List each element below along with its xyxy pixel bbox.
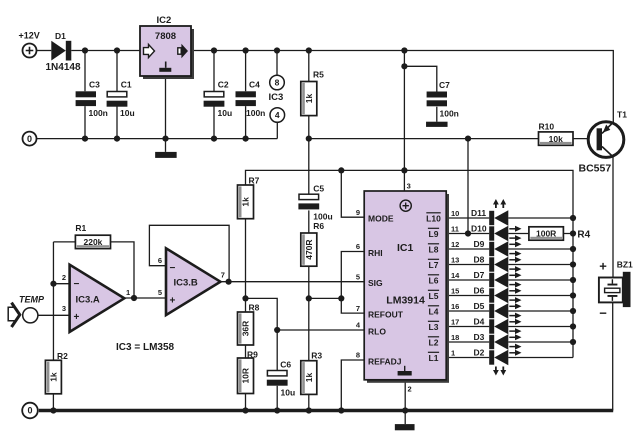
- wire base line R5/R10: [309, 138, 597, 140]
- junction dots 0V mid rail: [82, 136, 88, 142]
- junction RLO node: [274, 327, 280, 333]
- svg-text:L10: L10: [426, 213, 441, 223]
- LED side emission arrows: [509, 228, 515, 230]
- wire pin2 stub: [53, 283, 69, 285]
- svg-text:C3: C3: [89, 80, 100, 90]
- wire +8V rail from IC2 output to T1 emitter: [191, 51, 613, 124]
- wire C2 column: [213, 51, 215, 139]
- junctions LED anode bus: [570, 215, 576, 221]
- wire LED row pin to D8: [446, 264, 489, 266]
- svg-text:+: +: [74, 312, 80, 323]
- wire C4 column: [245, 51, 247, 139]
- op-amp IC3.A: [70, 265, 125, 332]
- wire C7 branch: [404, 66, 436, 121]
- svg-text:D2: D2: [474, 348, 485, 358]
- svg-text:100n: 100n: [246, 108, 265, 118]
- wire R5 top stem: [308, 51, 310, 82]
- svg-text:BC557: BC557: [579, 163, 612, 175]
- svg-text:15: 15: [451, 287, 459, 296]
- svg-text:100R: 100R: [536, 229, 556, 239]
- wire +12V to D1: [37, 50, 52, 52]
- svg-text:IC1: IC1: [397, 242, 414, 254]
- wire V+ line and LED anode bus: [246, 170, 574, 357]
- svg-text:REFADJ: REFADJ: [368, 356, 402, 366]
- svg-text:D5: D5: [474, 301, 485, 311]
- svg-text:+: +: [599, 258, 607, 273]
- svg-text:5: 5: [158, 288, 162, 297]
- svg-text:100n: 100n: [440, 108, 459, 118]
- ground below C7: [426, 122, 448, 127]
- svg-text:D7: D7: [474, 270, 485, 280]
- wire RLO node to C6: [276, 330, 278, 411]
- svg-text:8: 8: [275, 78, 280, 88]
- svg-text:1k: 1k: [49, 372, 59, 382]
- junction L9 row: [465, 230, 471, 236]
- wire REFOUT node to RLO pin 4: [246, 298, 365, 330]
- svg-text:1: 1: [451, 349, 455, 358]
- svg-text:C7: C7: [439, 80, 450, 90]
- wire LED row pin to D9: [446, 248, 489, 250]
- wire pin3 column: [403, 51, 405, 193]
- svg-text:T1: T1: [617, 110, 627, 120]
- svg-text:1N4148: 1N4148: [46, 62, 81, 73]
- svg-text:TEMP: TEMP: [19, 294, 45, 304]
- svg-text:D1: D1: [55, 31, 66, 41]
- svg-text:14: 14: [451, 271, 460, 280]
- junctions reference nodes: [242, 295, 248, 301]
- svg-text:L1: L1: [429, 353, 439, 363]
- svg-text:R2: R2: [57, 351, 68, 361]
- svg-text:D6: D6: [474, 286, 485, 296]
- svg-text:10u: 10u: [120, 108, 135, 118]
- svg-text:−: −: [170, 263, 176, 274]
- junctions V+ line: [338, 167, 344, 173]
- svg-text:10R: 10R: [241, 368, 251, 384]
- regulator IC2 7808: [143, 29, 194, 79]
- wire C5 to R6: [308, 210, 310, 233]
- svg-text:L7: L7: [429, 260, 439, 270]
- wire buzzer to 0V: [612, 302, 614, 410]
- svg-text:220k: 220k: [83, 237, 102, 247]
- svg-text:D9: D9: [474, 239, 485, 249]
- svg-text:13: 13: [451, 256, 459, 265]
- svg-text:0: 0: [27, 134, 32, 144]
- svg-text:L3: L3: [429, 322, 439, 332]
- svg-text:L8: L8: [429, 244, 439, 254]
- svg-text:R3: R3: [311, 350, 322, 360]
- svg-text:1k: 1k: [241, 197, 251, 207]
- svg-text:9: 9: [356, 208, 360, 217]
- svg-text:L2: L2: [429, 337, 439, 347]
- wire LED row pin to D11: [446, 217, 489, 219]
- wire IC3.B feedback loop: [149, 225, 229, 281]
- svg-text:L5: L5: [429, 291, 439, 301]
- svg-text:+: +: [170, 295, 176, 306]
- svg-text:R6: R6: [313, 221, 324, 231]
- svg-text:R1: R1: [75, 223, 86, 233]
- wire R1 right lead: [111, 242, 135, 298]
- wire LED row pin to D7: [446, 279, 489, 281]
- wire REFADJ pin8 elbow to 0V: [341, 360, 364, 411]
- svg-text:6: 6: [356, 242, 360, 251]
- capacitor C4 100n: [236, 91, 256, 97]
- LED top emission arrows: [495, 204, 497, 209]
- capacitor C1 10u: [107, 92, 127, 97]
- svg-text:C6: C6: [280, 359, 291, 369]
- wire IC3.A output to IC3.B pin5: [124, 297, 166, 299]
- svg-text:D11: D11: [471, 208, 486, 218]
- wire R3 bottom stem: [308, 394, 310, 410]
- wire RHI pin6 to REFOUT pin7 elbow: [341, 252, 364, 314]
- svg-text:IC3 = LM358: IC3 = LM358: [116, 342, 175, 353]
- wire R7 to R8: [245, 219, 247, 312]
- svg-text:5: 5: [356, 272, 360, 281]
- ground below IC1 pin 2: [395, 424, 415, 430]
- svg-text:L6: L6: [429, 275, 439, 285]
- svg-text:16: 16: [451, 302, 459, 311]
- svg-text:2: 2: [408, 385, 412, 394]
- wire R9 bottom stem: [245, 394, 247, 411]
- wire IC3 pin4 stem: [276, 122, 278, 138]
- svg-text:10: 10: [451, 209, 459, 218]
- svg-text:1k: 1k: [304, 373, 314, 383]
- svg-text:10k: 10k: [549, 134, 563, 144]
- wire R6 to R3: [308, 266, 310, 361]
- svg-text:L9: L9: [429, 229, 439, 239]
- IC1 LM3914: [367, 194, 449, 383]
- svg-text:R8: R8: [249, 303, 260, 313]
- svg-text:470R: 470R: [304, 239, 314, 259]
- wire TEMP to pin3: [38, 314, 70, 316]
- svg-text:R4: R4: [577, 230, 590, 241]
- junction IC3.A output: [131, 295, 137, 301]
- terminal 0V bottom: [22, 403, 38, 419]
- svg-text:C5: C5: [313, 184, 324, 194]
- svg-text:IC3.B: IC3.B: [174, 278, 198, 289]
- svg-text:RLO: RLO: [368, 326, 386, 336]
- svg-text:RHI: RHI: [368, 248, 383, 258]
- diode D1 1N4148: [51, 41, 66, 61]
- wire LED row pin to D5: [446, 310, 489, 312]
- svg-text:D10: D10: [471, 224, 487, 234]
- svg-text:7808: 7808: [155, 31, 176, 42]
- wire R1 feedback column: [52, 242, 54, 360]
- wire LED row pin to D4: [446, 326, 489, 328]
- wire MODE pin9 elbow to V+: [341, 170, 364, 217]
- svg-text:0: 0: [27, 406, 32, 416]
- svg-text:R10: R10: [539, 122, 555, 132]
- wire LED row pin to D6: [446, 295, 489, 297]
- junction IC3.B output: [226, 279, 232, 285]
- svg-text:100n: 100n: [89, 108, 108, 118]
- wire bottom 0V rail: [39, 409, 613, 413]
- svg-text:10u: 10u: [218, 108, 233, 118]
- op-amp IC3.B: [166, 248, 220, 315]
- svg-text:12: 12: [451, 240, 459, 249]
- IC1 internal ground: [404, 366, 406, 371]
- junction C7 branch: [401, 63, 407, 69]
- wire T1 collector to buzzer: [612, 157, 614, 278]
- wire C3 column: [84, 51, 86, 139]
- wire D1 to IC2 input: [71, 50, 140, 52]
- svg-text:BZ1: BZ1: [617, 260, 633, 270]
- capacitor C2 10u: [204, 92, 224, 97]
- svg-text:8: 8: [356, 351, 360, 360]
- svg-text:18: 18: [451, 333, 459, 342]
- terminal +12V: [23, 44, 37, 58]
- svg-text:36R: 36R: [241, 321, 251, 337]
- wire R8 to R9: [245, 345, 247, 358]
- wire LED row pin to D3: [446, 341, 489, 343]
- svg-text:MODE: MODE: [368, 214, 394, 224]
- transistor T1 BC557: [588, 122, 624, 158]
- svg-text:D3: D3: [474, 332, 485, 342]
- svg-text:L4: L4: [429, 306, 439, 316]
- IC3 power pins 8 / 4: [270, 75, 285, 90]
- svg-text:D8: D8: [474, 255, 485, 265]
- wire IC3 pin8 stem: [276, 51, 278, 76]
- svg-text:IC3.A: IC3.A: [76, 294, 100, 305]
- svg-text:3: 3: [407, 181, 411, 190]
- svg-text:3: 3: [62, 304, 66, 313]
- svg-text:11: 11: [451, 225, 459, 234]
- wire IC1 pin2 stem: [404, 380, 406, 424]
- wire R2 bottom stem: [52, 394, 54, 411]
- svg-text:−: −: [599, 306, 607, 321]
- junction dots bottom rail: [50, 407, 56, 413]
- svg-text:IC2: IC2: [157, 15, 172, 26]
- svg-text:7: 7: [356, 304, 360, 313]
- svg-text:R7: R7: [249, 176, 260, 186]
- svg-text:D4: D4: [474, 317, 485, 327]
- svg-text:R5: R5: [313, 70, 324, 80]
- wire R1 left lead: [53, 241, 75, 243]
- junction dots top rail: [82, 47, 88, 53]
- ground below IC2: [155, 152, 177, 158]
- wire LED row pin to D2: [446, 357, 489, 359]
- svg-text:1k: 1k: [304, 94, 314, 104]
- svg-text:IC3: IC3: [269, 92, 284, 103]
- svg-text:7: 7: [221, 270, 225, 279]
- wire 0V mid rail: [37, 138, 278, 140]
- svg-text:−: −: [74, 279, 80, 290]
- svg-text:2: 2: [62, 273, 66, 282]
- svg-text:SIG: SIG: [368, 278, 383, 288]
- wire LED row pin to D10: [446, 233, 489, 235]
- svg-text:C1: C1: [121, 80, 132, 90]
- wire R5 bottom to C5: [308, 116, 310, 194]
- junction IC3.A pin2: [50, 281, 56, 287]
- terminal 0V mid: [23, 132, 37, 146]
- wire C1 column: [116, 51, 118, 139]
- svg-text:REFOUT: REFOUT: [368, 309, 404, 319]
- svg-text:17: 17: [451, 318, 459, 327]
- wire SIG line from IC3.B output: [220, 281, 364, 283]
- wire R6/R3 node to RHI-REFOUT elbow: [309, 297, 342, 299]
- svg-text:C2: C2: [218, 80, 229, 90]
- svg-text:+12V: +12V: [19, 31, 40, 41]
- LED bottom emission arrows: [495, 367, 497, 372]
- junction dots base line: [306, 136, 312, 142]
- wire L9 to T1 base net: [467, 139, 469, 234]
- svg-text:10u: 10u: [281, 388, 296, 398]
- wire IC2 ground stem: [165, 76, 167, 152]
- resistor R4 100R: [529, 227, 564, 240]
- svg-text:6: 6: [158, 256, 162, 265]
- svg-text:4: 4: [275, 110, 280, 120]
- capacitor C3 100n: [76, 91, 96, 97]
- svg-text:LM3914: LM3914: [386, 294, 425, 306]
- svg-text:C4: C4: [249, 80, 260, 90]
- svg-text:1: 1: [126, 288, 130, 297]
